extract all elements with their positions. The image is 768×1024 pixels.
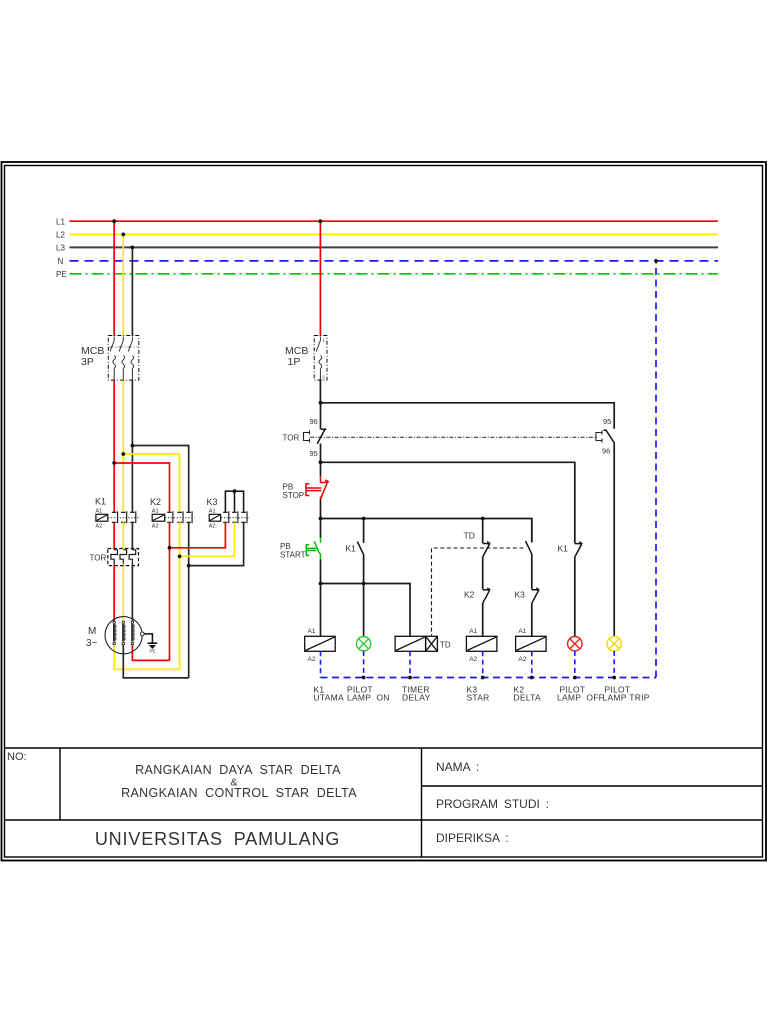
svg-text:3~: 3~	[86, 638, 98, 649]
svg-text:K2: K2	[150, 497, 161, 507]
svg-text:TD: TD	[440, 641, 451, 650]
svg-text:A2: A2	[308, 656, 316, 663]
svg-text:K1: K1	[95, 497, 106, 507]
svg-text:A1: A1	[469, 628, 477, 635]
svg-text:L3: L3	[56, 244, 65, 253]
svg-text:A2: A2	[209, 524, 216, 530]
svg-text:A2: A2	[469, 656, 477, 663]
svg-text:A2: A2	[152, 524, 159, 530]
svg-text:START: START	[280, 551, 306, 560]
svg-text:STAR: STAR	[467, 693, 490, 703]
svg-text:TOR: TOR	[90, 554, 107, 563]
svg-text:K3: K3	[515, 590, 526, 600]
svg-text:L2: L2	[56, 231, 65, 240]
svg-text:M: M	[88, 626, 96, 637]
svg-text:K1: K1	[558, 544, 569, 554]
svg-text:TOR: TOR	[283, 434, 300, 443]
svg-text:NO:: NO:	[7, 751, 27, 763]
svg-text:LAMP TRIP: LAMP TRIP	[603, 693, 650, 703]
svg-text:PE: PE	[56, 270, 67, 279]
svg-text:3P: 3P	[81, 356, 94, 368]
svg-text:STOP: STOP	[283, 491, 305, 500]
svg-text:K3: K3	[207, 497, 218, 507]
svg-text:A2: A2	[518, 656, 526, 663]
svg-text:UNIVERSITAS PAMULANG: UNIVERSITAS PAMULANG	[95, 829, 340, 849]
svg-text:95: 95	[310, 449, 318, 458]
svg-text:A1: A1	[152, 509, 159, 515]
svg-text:RANGKAIAN DAYA STAR DELTA: RANGKAIAN DAYA STAR DELTA	[135, 763, 341, 777]
svg-text:1P: 1P	[288, 356, 301, 368]
svg-text:A2: A2	[96, 524, 103, 530]
svg-text:A1: A1	[308, 628, 316, 635]
svg-text:96: 96	[310, 417, 318, 426]
svg-text:A1: A1	[518, 628, 526, 635]
svg-text:NAMA :: NAMA :	[436, 760, 479, 774]
svg-text:DELAY: DELAY	[402, 693, 431, 703]
svg-text:A1: A1	[209, 509, 216, 515]
svg-text:96: 96	[602, 447, 610, 456]
svg-text:N: N	[58, 257, 64, 266]
svg-text:L1: L1	[56, 218, 65, 227]
svg-text:TD: TD	[464, 531, 475, 541]
svg-text:RANGKAIAN CONTROL STAR DELTA: RANGKAIAN CONTROL STAR DELTA	[121, 786, 357, 800]
svg-text:DIPERIKSA :: DIPERIKSA :	[436, 831, 509, 845]
svg-text:PE: PE	[150, 649, 156, 654]
svg-text:LAMP OFF: LAMP OFF	[557, 693, 604, 703]
svg-text:A1: A1	[96, 509, 103, 515]
svg-text:UTAMA: UTAMA	[314, 693, 344, 703]
svg-text:PROGRAM STUDI :: PROGRAM STUDI :	[436, 797, 549, 811]
svg-text:DELTA: DELTA	[514, 693, 541, 703]
svg-text:K2: K2	[464, 590, 475, 600]
svg-text:95: 95	[603, 417, 611, 426]
svg-text:LAMP ON: LAMP ON	[347, 693, 390, 703]
svg-text:K1: K1	[346, 544, 357, 554]
